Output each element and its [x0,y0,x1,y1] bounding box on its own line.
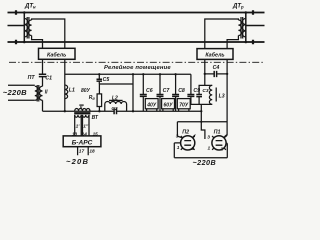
svg-text:~220В: ~220В [193,158,217,167]
svg-text:~220В: ~220В [3,88,27,97]
svg-text:II: II [45,89,48,95]
svg-text:П2: П2 [182,130,189,136]
svg-text:Кабель: Кабель [205,52,224,59]
svg-text:1: 1 [208,145,211,151]
svg-text:ВТ: ВТ [92,115,99,121]
svg-text:2: 2 [219,147,223,153]
svg-text:1'': 1'' [83,124,89,130]
svg-text:Rд: Rд [89,95,96,101]
svg-text:1': 1' [76,124,81,130]
svg-text:ДТр: ДТр [232,3,244,9]
svg-text:L1: L1 [69,88,75,94]
svg-text:Кабель: Кабель [47,51,66,58]
svg-text:С7: С7 [163,88,171,94]
svg-text:80У: 80У [81,88,91,94]
svg-text:С8: С8 [178,88,185,94]
svg-text:40У: 40У [146,103,157,109]
svg-text:ДТн: ДТн [24,3,36,9]
svg-text:~20В: ~20В [66,157,89,166]
svg-text:Б-АРС: Б-АРС [72,140,93,147]
svg-text:2: 2 [190,146,194,152]
svg-text:70У: 70У [179,103,189,109]
svg-text:18: 18 [89,149,95,155]
svg-text:С4: С4 [213,65,220,71]
svg-text:60У: 60У [164,103,174,109]
svg-text:С5: С5 [103,77,110,83]
svg-text:С6: С6 [146,88,153,94]
svg-text:Релейное помещение: Релейное помещение [104,64,171,71]
svg-text:С1: С1 [45,75,52,81]
svg-text:1: 1 [177,145,180,151]
svg-text:ПТ: ПТ [28,75,36,81]
svg-text:С3: С3 [202,88,208,94]
svg-text:17: 17 [79,149,85,155]
svg-text:3: 3 [176,134,179,140]
svg-text:L2: L2 [112,96,118,102]
svg-text:L3: L3 [219,93,225,99]
svg-text:3: 3 [207,135,210,141]
svg-text:С2: С2 [111,106,117,112]
svg-text:П1: П1 [214,130,221,136]
